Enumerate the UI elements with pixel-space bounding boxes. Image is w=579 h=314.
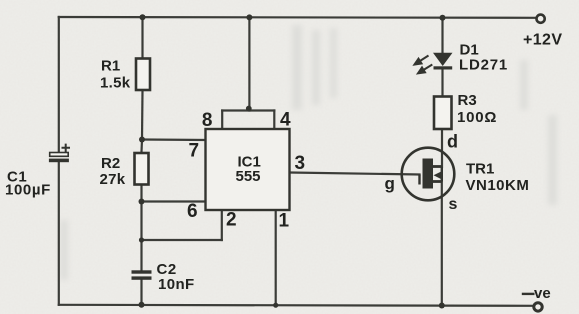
svg-text:LD271: LD271 (459, 57, 508, 74)
svg-text:7: 7 (189, 141, 200, 162)
wire pin 8 leg (221, 111, 223, 130)
svg-text:d: d (447, 132, 458, 152)
node source ground rail junction (439, 303, 445, 309)
wire pin 7 (142, 138, 206, 141)
svg-text:4: 4 (280, 110, 291, 131)
wire pin8-pin4 bridge top (222, 109, 274, 111)
node LED branch rail junction (440, 15, 446, 21)
node IC supply rail junction (246, 14, 252, 20)
resistor R3 (434, 97, 452, 130)
svg-text:+12V: +12V (523, 32, 562, 49)
wire R2 bottom lead to node B (140, 184, 142, 202)
node C2 ground rail junction (139, 302, 145, 308)
wire pin 6 (142, 200, 207, 202)
wire source to ground rail (441, 182, 443, 306)
svg-text:10nF: 10nF (158, 276, 195, 293)
wire pin 4 leg (273, 111, 275, 130)
wire IC supply drop (248, 17, 250, 111)
capacitor C2 (132, 270, 152, 280)
svg-text:TR1: TR1 (466, 161, 494, 178)
node pin2 junction (139, 237, 144, 242)
svg-text:R1: R1 (101, 58, 120, 75)
svg-text:6: 6 (187, 201, 198, 222)
svg-text:VN10KM: VN10KM (466, 177, 530, 194)
resistor R1 (136, 59, 150, 91)
node R1 top rail junction (140, 14, 146, 20)
svg-text:555: 555 (236, 168, 261, 185)
wire pin 1 to ground rail (275, 210, 277, 305)
node B junction R2 pin6 C2 (139, 199, 145, 205)
wire LED cathode to R3 (441, 70, 443, 97)
wire R2 top lead (140, 140, 143, 153)
LED emission arrows (415, 56, 433, 74)
wire R1 bottom lead (141, 91, 144, 140)
svg-text:1.5k: 1.5k (100, 75, 131, 92)
svg-text:100µF: 100µF (5, 182, 51, 199)
svg-text:100Ω: 100Ω (457, 109, 497, 126)
capacitor C1 polarised (49, 144, 70, 163)
IC1 555 timer body (206, 129, 290, 210)
svg-text:s: s (449, 196, 458, 213)
wire LED branch from rail (441, 18, 443, 53)
wire left rail upper (to C1) (58, 17, 60, 153)
svg-text:g: g (385, 174, 395, 193)
svg-text:2: 2 (226, 210, 237, 231)
wire R1 top lead (141, 17, 143, 58)
wire R3 to drain (441, 129, 443, 167)
svg-text:3: 3 (295, 153, 306, 174)
terminal -ve (534, 303, 542, 311)
wire pin 2 vertical leg (221, 210, 223, 241)
svg-text:R2: R2 (101, 155, 120, 172)
wire bottom ground rail (59, 305, 534, 306)
wire C2 bottom lead (140, 280, 142, 305)
wire left rail lower (C1 to ground rail) (58, 162, 60, 305)
svg-text:27k: 27k (100, 171, 126, 188)
svg-text:ve: ve (534, 285, 551, 302)
wire pin 2 horizontal (142, 239, 222, 241)
svg-text:8: 8 (202, 110, 213, 131)
wire top supply rail (59, 16, 536, 19)
wire pin 3 to gate (290, 173, 420, 175)
diode D1 LED (433, 53, 453, 70)
node A junction R1 R2 pin7 (139, 137, 145, 143)
node pin8-pin4 bridge junction (246, 106, 252, 112)
wire node B down to C2 (140, 202, 142, 271)
terminal +12V (537, 15, 545, 23)
svg-text:R3: R3 (458, 92, 477, 109)
svg-text:1: 1 (279, 211, 290, 232)
resistor R2 (135, 153, 149, 185)
node pin1 ground rail junction (273, 303, 278, 308)
transistor TR1 VN10KM MOSFET (402, 148, 455, 201)
